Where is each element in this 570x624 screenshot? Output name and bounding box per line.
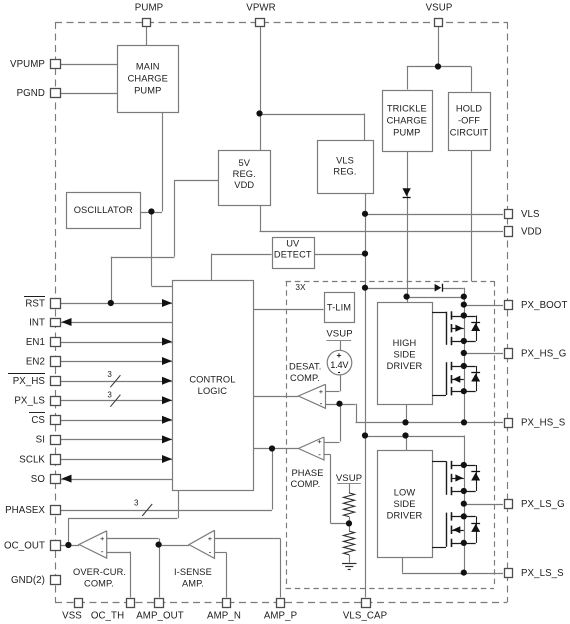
svg-text:VSS: VSS	[62, 610, 82, 621]
svg-text:3: 3	[107, 390, 112, 399]
svg-text:SIDE: SIDE	[393, 350, 415, 360]
svg-text:5V: 5V	[238, 158, 250, 168]
svg-text:3: 3	[134, 498, 139, 507]
svg-text:DRIVER: DRIVER	[387, 361, 423, 371]
svg-text:OC_OUT: OC_OUT	[4, 540, 45, 551]
svg-text:INT: INT	[29, 317, 45, 328]
svg-text:PX_HS_G: PX_HS_G	[521, 348, 566, 359]
svg-text:-: -	[318, 449, 321, 459]
svg-text:REG.: REG.	[333, 167, 356, 177]
svg-text:+: +	[100, 534, 105, 543]
svg-text:UV: UV	[286, 239, 300, 249]
svg-text:COMP.: COMP.	[290, 373, 320, 383]
svg-text:COMP.: COMP.	[291, 479, 321, 489]
svg-text:-: -	[338, 367, 341, 377]
svg-text:PUMP: PUMP	[135, 2, 163, 13]
svg-text:EN2: EN2	[26, 356, 45, 367]
svg-text:AMP_P: AMP_P	[264, 610, 297, 621]
svg-text:+: +	[317, 437, 322, 446]
svg-text:CIRCUIT: CIRCUIT	[450, 128, 489, 138]
svg-text:PGND: PGND	[17, 88, 45, 99]
svg-text:OVER-CUR.: OVER-CUR.	[73, 567, 126, 577]
svg-text:MAIN: MAIN	[136, 61, 160, 71]
svg-text:EN1: EN1	[26, 337, 45, 348]
svg-text:3X: 3X	[295, 282, 306, 292]
svg-text:REG.: REG.	[233, 169, 256, 179]
svg-text:VLS: VLS	[336, 155, 354, 165]
svg-text:VSUP: VSUP	[426, 2, 453, 13]
svg-text:PUMP: PUMP	[134, 85, 161, 95]
svg-text:-OFF: -OFF	[458, 116, 480, 126]
svg-text:DRIVER: DRIVER	[387, 511, 423, 521]
svg-text:PHASE: PHASE	[292, 468, 324, 478]
svg-text:HIGH: HIGH	[393, 338, 417, 348]
svg-text:SI: SI	[36, 435, 45, 446]
svg-text:T-LIM: T-LIM	[327, 302, 351, 312]
svg-text:LOW: LOW	[394, 488, 416, 498]
svg-text:VDD: VDD	[234, 180, 254, 190]
svg-text:VSUP: VSUP	[326, 329, 352, 340]
svg-text:AMP_OUT: AMP_OUT	[136, 610, 184, 621]
svg-text:SCLK: SCLK	[19, 454, 45, 465]
svg-text:I-SENSE: I-SENSE	[174, 567, 212, 577]
svg-text:OSCILLATOR: OSCILLATOR	[74, 205, 133, 215]
svg-text:RST: RST	[25, 298, 45, 309]
svg-text:DETECT: DETECT	[274, 249, 312, 259]
svg-text:COMP.: COMP.	[84, 579, 114, 589]
svg-text:+: +	[337, 350, 342, 360]
svg-text:GND(2): GND(2)	[11, 575, 45, 586]
svg-text:PX_LS: PX_LS	[14, 396, 45, 407]
svg-text:CONTROL: CONTROL	[189, 375, 235, 385]
svg-text:-: -	[320, 398, 323, 408]
svg-text:PUMP: PUMP	[393, 127, 420, 137]
svg-text:CHARGE: CHARGE	[128, 73, 168, 83]
svg-text:HOLD: HOLD	[456, 104, 482, 114]
svg-text:TRICKLE: TRICKLE	[387, 103, 427, 113]
svg-text:SO: SO	[31, 474, 46, 485]
svg-text:PX_BOOT: PX_BOOT	[521, 300, 567, 311]
svg-text:VLS_CAP: VLS_CAP	[343, 610, 387, 621]
svg-text:PX_LS_G: PX_LS_G	[521, 499, 565, 510]
svg-text:DESAT.: DESAT.	[289, 362, 321, 372]
svg-text:VPWR: VPWR	[246, 2, 275, 13]
svg-text:3: 3	[107, 370, 112, 379]
svg-text:-: -	[101, 546, 104, 556]
svg-text:PX_LS_S: PX_LS_S	[521, 568, 564, 579]
svg-text:+: +	[208, 534, 213, 543]
svg-text:PX_HS: PX_HS	[13, 376, 46, 387]
svg-text:PX_HS_S: PX_HS_S	[521, 418, 566, 429]
svg-text:OC_TH: OC_TH	[91, 610, 124, 621]
svg-text:CS: CS	[31, 415, 45, 426]
svg-text:AMP_N: AMP_N	[207, 610, 241, 621]
svg-text:-: -	[209, 547, 212, 557]
svg-text:VPUMP: VPUMP	[10, 59, 45, 70]
svg-text:VDD: VDD	[521, 226, 542, 237]
svg-text:AMP.: AMP.	[182, 579, 204, 589]
svg-text:+: +	[319, 387, 324, 396]
svg-text:LOGIC: LOGIC	[198, 386, 228, 396]
svg-text:VSUP: VSUP	[336, 473, 362, 484]
svg-text:CHARGE: CHARGE	[387, 115, 427, 125]
svg-text:VLS: VLS	[521, 209, 540, 220]
svg-text:PHASEX: PHASEX	[5, 505, 45, 516]
svg-text:SIDE: SIDE	[393, 499, 415, 509]
